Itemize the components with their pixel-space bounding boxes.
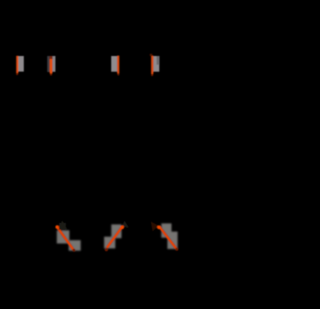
transistor Q1 current path glow block A xyxy=(57,230,70,243)
arrowhead Q2 (dark, up-right) xyxy=(122,221,129,228)
transistor Q3 current path glow block lower xyxy=(167,232,177,249)
transistor Q2 base current path glow block upper xyxy=(111,224,121,238)
resistor R2 body (gray) xyxy=(47,56,55,72)
current arrow shaft Q1 (red, core) xyxy=(57,227,73,250)
arrowhead tail dot R4 xyxy=(151,74,153,76)
resistor R4 body top-right shade xyxy=(157,56,160,65)
current arrow along R1 (red) xyxy=(16,56,18,73)
arrow tail dot Q1 xyxy=(73,249,76,252)
arrow tail dot Q3 xyxy=(175,248,178,251)
current arrow shaft Q2 (red, outline) xyxy=(107,227,123,248)
arrowhead tail dot R1 xyxy=(16,73,18,75)
transistor Q2 base current path glow block lower xyxy=(104,237,115,249)
arrowhead Q1 (black over glow) xyxy=(59,220,68,230)
arrow tip dot Q2 xyxy=(120,225,124,229)
arrowhead top smudge R4 xyxy=(150,54,153,56)
arrow tip dot Q1 xyxy=(55,225,59,229)
arrowhead tail dot R2 xyxy=(50,73,52,75)
current arrow shaft Q3 (red, core) xyxy=(160,227,176,248)
resistor R3 body (gray) xyxy=(111,56,117,72)
arrowhead tail dot R3 xyxy=(117,73,119,75)
current arrow along R2 (red) xyxy=(50,56,53,73)
current arrow shaft Q3 (red, outline) xyxy=(160,227,177,249)
current arrow shaft Q1 (red, outline) xyxy=(57,226,74,249)
transistor Q1 current path glow block B xyxy=(69,240,81,251)
arrow tail dot Q2 xyxy=(105,248,108,251)
resistor R1 body (gray) xyxy=(18,56,24,72)
transistor Q3 current path glow block upper xyxy=(161,223,171,237)
arrowhead top shade R2 xyxy=(49,56,52,59)
resistor R2 body left shade xyxy=(47,56,49,72)
arrowhead Q3 (dark maroon, up-left) xyxy=(151,222,159,232)
current arrow along R3 (red) xyxy=(117,56,119,74)
transistor Q1 arrowhead glow wedge xyxy=(59,223,65,230)
resistor R4 body (gray) xyxy=(153,56,159,72)
arrow tip dot Q3 xyxy=(157,225,161,229)
current arrow along R4 (red) xyxy=(151,56,153,74)
current arrow shaft Q2 (red, core) xyxy=(107,227,122,248)
